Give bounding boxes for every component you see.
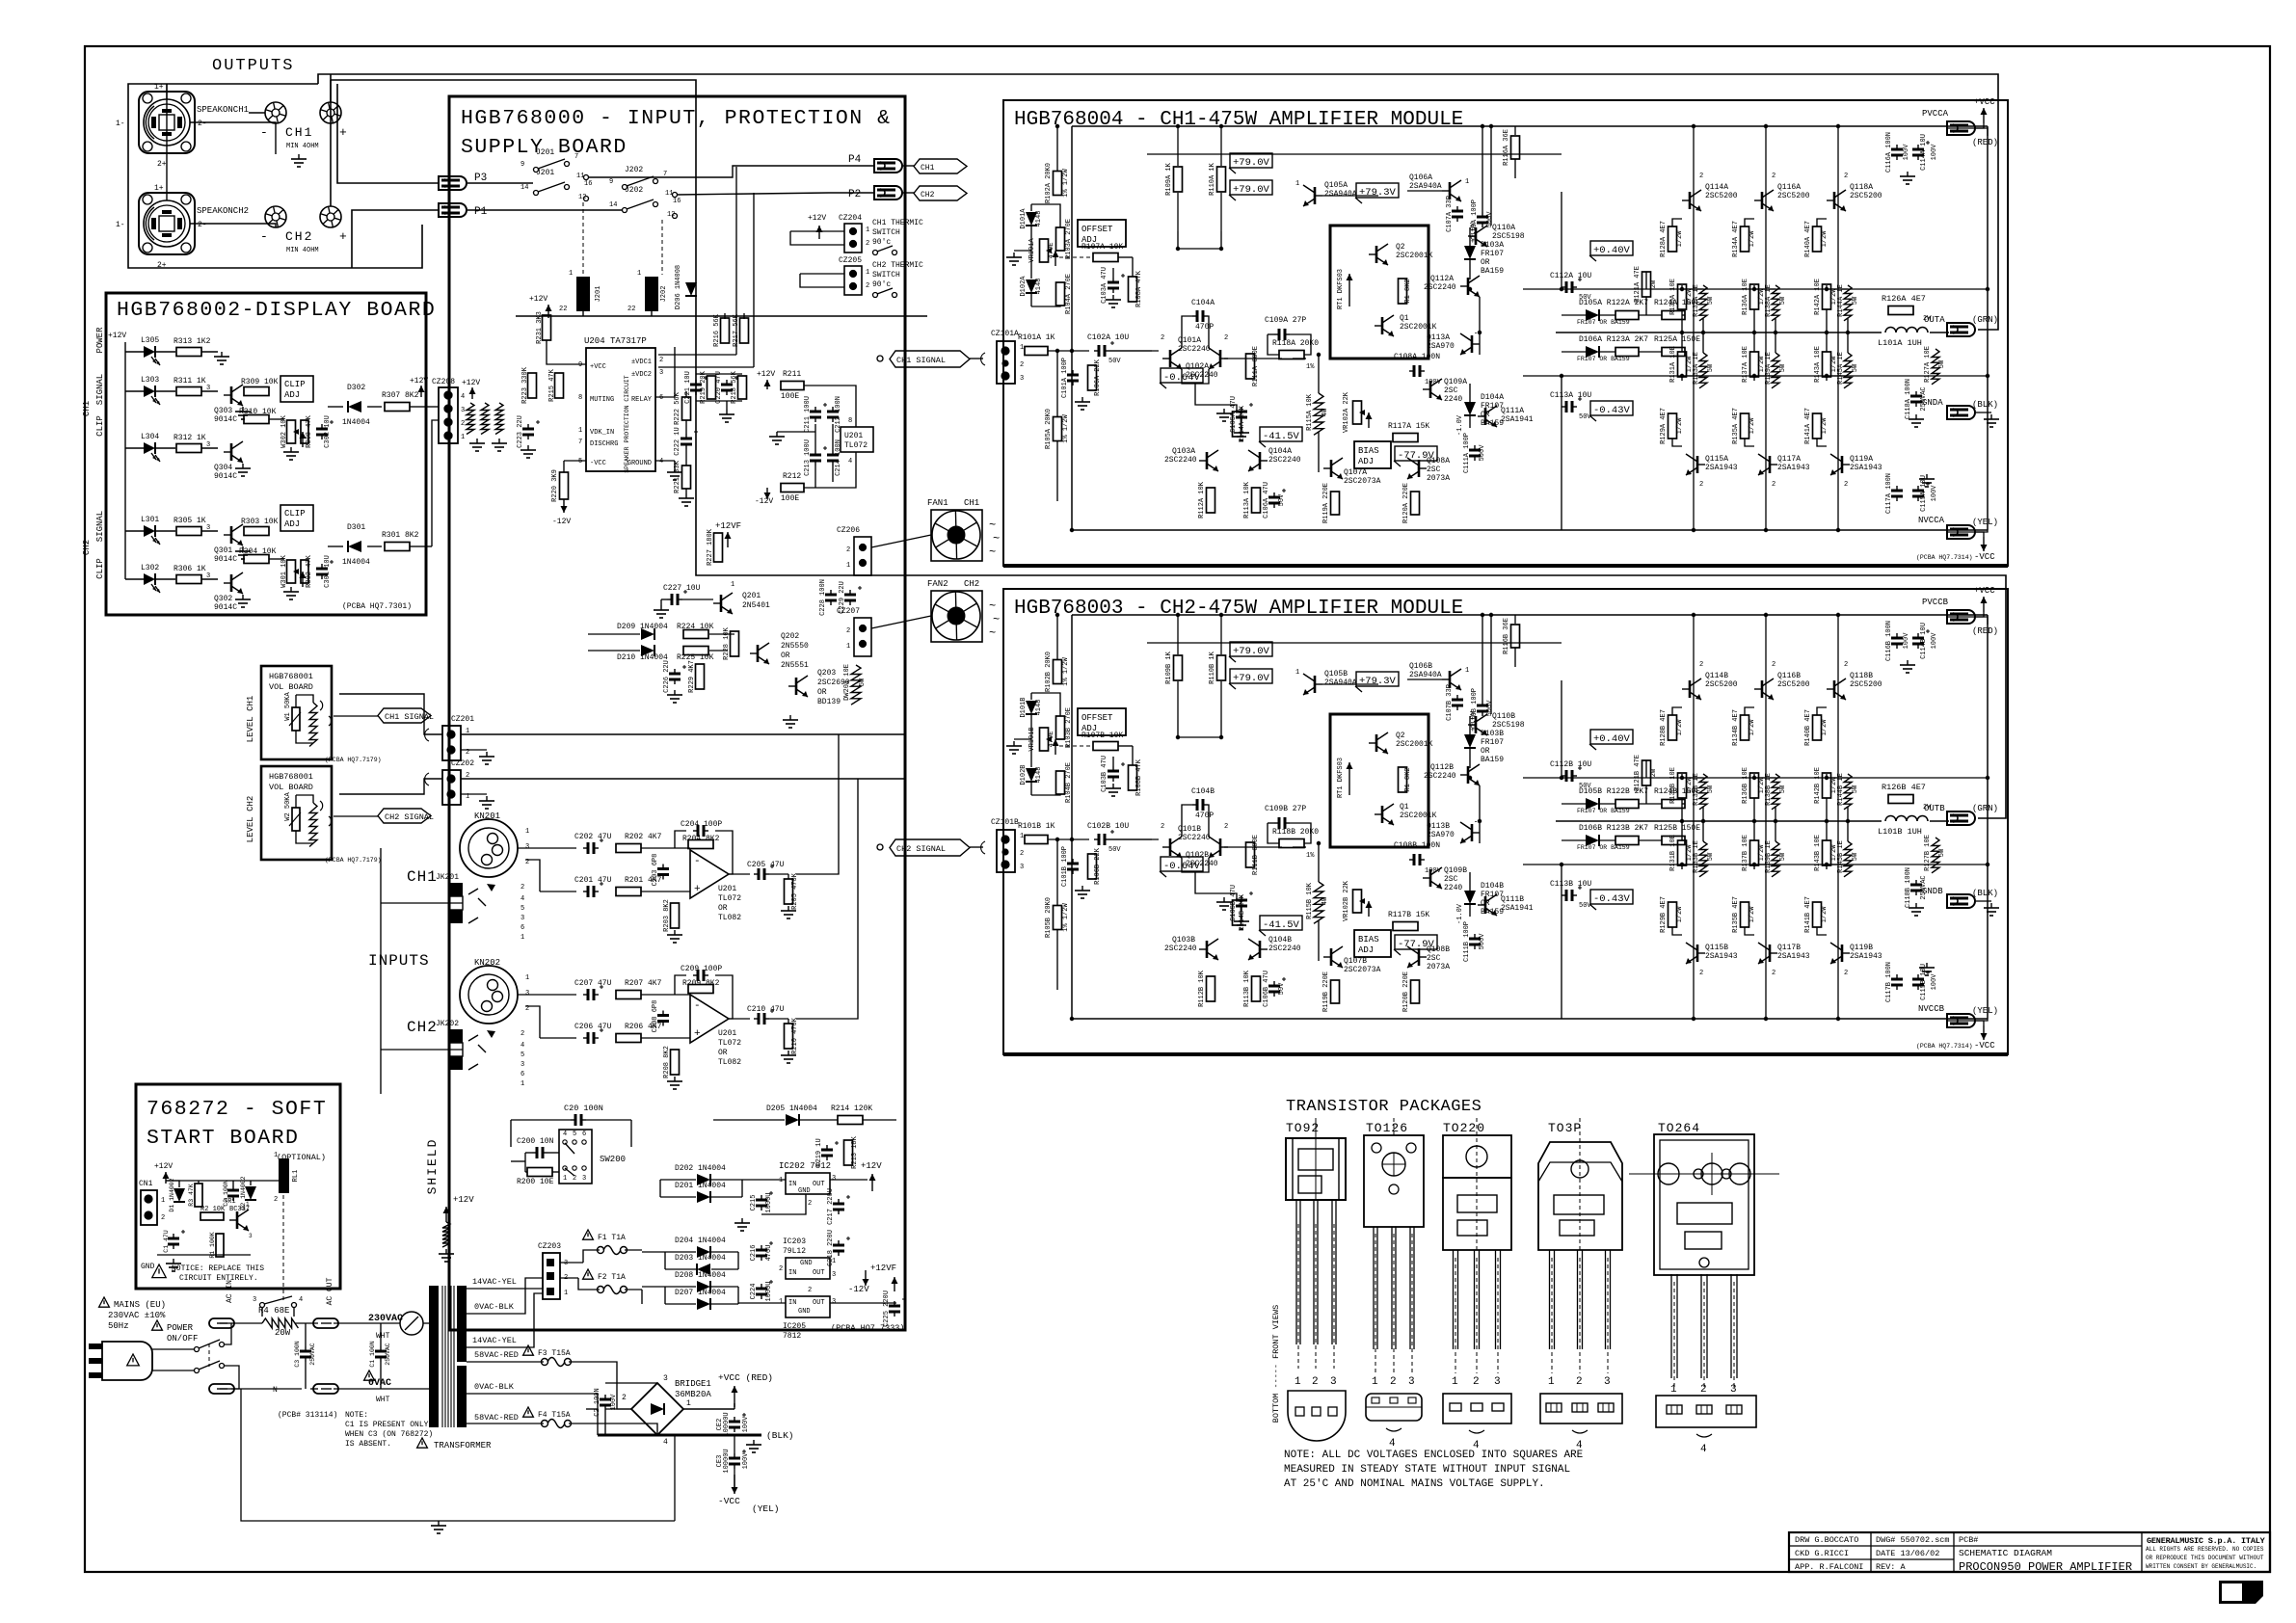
resistor R218 56K	[738, 376, 747, 399]
wire out bus	[1556, 820, 1882, 822]
svg-text:1: 1	[578, 427, 582, 435]
resistor R209 8K2 feedback	[688, 985, 713, 994]
svg-text:5W: 5W	[1852, 852, 1859, 861]
svg-text:C113B 10U: C113B 10U	[1550, 880, 1591, 889]
wire J202 to P2	[677, 193, 874, 195]
voltmeter circle	[400, 1312, 423, 1335]
svg-text:+12V: +12V	[462, 379, 480, 387]
svg-text:1000U: 1000U	[765, 1281, 773, 1301]
svg-text:J202: J202	[625, 186, 643, 195]
svg-text:5W: 5W	[1852, 785, 1859, 793]
svg-text:WHT: WHT	[376, 1396, 390, 1404]
wire input to diff pair	[1109, 838, 1159, 840]
svg-text:R207 4K7: R207 4K7	[625, 979, 662, 988]
svg-text:C101B 100P: C101B 100P	[1061, 846, 1069, 887]
resistor R120A 220E	[1411, 492, 1420, 515]
svg-text:CZ203: CZ203	[538, 1242, 561, 1251]
svg-text:VR102A 22K: VR102A 22K	[1343, 391, 1350, 433]
svg-text:5W: 5W	[1938, 848, 1946, 857]
svg-text:R128B 4E7: R128B 4E7	[1660, 709, 1668, 746]
svg-text:R301 8K2: R301 8K2	[382, 531, 419, 540]
resistor R303 10K	[244, 527, 269, 536]
svg-text:3: 3	[1330, 1376, 1337, 1388]
op-amp U201 C202	[690, 850, 729, 898]
svg-text:Q106B: Q106B	[1409, 662, 1432, 671]
switch power	[195, 1347, 200, 1352]
resistor R305 1K	[155, 530, 175, 532]
svg-text:1/2W: 1/2W	[1821, 417, 1829, 435]
svg-text:Q107A: Q107A	[1344, 468, 1367, 477]
svg-text:Q303: Q303	[214, 407, 232, 415]
svg-text:2: 2	[1224, 823, 1228, 831]
op-amp U201 C207	[690, 995, 729, 1043]
wire base drops	[1177, 615, 1179, 654]
svg-text:-12V: -12V	[552, 518, 571, 526]
svg-text:CH1 SIGNAL: CH1 SIGNAL	[896, 356, 946, 365]
svg-text:470P: 470P	[1195, 811, 1214, 820]
svg-text:D301: D301	[347, 523, 365, 532]
wire switch to AC IN	[220, 1323, 231, 1344]
svg-text:(BLK): (BLK)	[766, 1430, 794, 1441]
svg-text:4: 4	[1389, 1438, 1396, 1450]
potentiometer W301 10K	[287, 560, 296, 583]
svg-text:R304 10K: R304 10K	[239, 547, 277, 556]
svg-text:C209 100P: C209 100P	[681, 965, 722, 973]
diode D103B	[1464, 734, 1476, 748]
svg-text:R107B 10K: R107B 10K	[1081, 732, 1123, 740]
resistor R108A 47K	[1129, 277, 1137, 302]
potentiometer VR102B 22K	[1353, 890, 1362, 913]
ground C223	[527, 445, 529, 450]
wire U204 relay to coils	[655, 347, 675, 397]
svg-text:OR REPRODUCE THIS DOCUMENT WIT: OR REPRODUCE THIS DOCUMENT WITHOUT	[2146, 1555, 2264, 1561]
svg-text:R219 20K: R219 20K	[700, 370, 707, 403]
svg-text:APP. R.FALCONI: APP. R.FALCONI	[1795, 1562, 1863, 1572]
svg-text:C207 47U: C207 47U	[574, 979, 612, 988]
svg-text:Q109A: Q109A	[1444, 378, 1467, 386]
transistor Q111A 2SA1941	[1484, 408, 1487, 425]
svg-text:+12V: +12V	[108, 332, 126, 340]
svg-text:(PCBA HQ7.7314): (PCBA HQ7.7314)	[1916, 554, 1973, 561]
svg-text:3: 3	[1020, 864, 1024, 871]
svg-text:C225 220U: C225 220U	[883, 1290, 891, 1327]
resistor R306 1K	[155, 578, 175, 580]
svg-text:MUTING: MUTING	[590, 396, 614, 404]
svg-text:-12V: -12V	[755, 497, 773, 506]
svg-text:R218 56K: R218 56K	[731, 370, 738, 403]
svg-text:(RED): (RED)	[1972, 138, 1998, 147]
svg-text:D104A: D104A	[1481, 393, 1504, 402]
svg-text:HGB768001: HGB768001	[269, 672, 313, 681]
svg-text:-VCC: -VCC	[1974, 552, 1995, 562]
svg-text:R108B 47K: R108B 47K	[1135, 758, 1143, 796]
svg-text:2SC5200: 2SC5200	[1777, 680, 1810, 689]
capacitor C107A 33P	[1456, 206, 1458, 211]
svg-text:FR107 OR BA159: FR107 OR BA159	[1577, 808, 1630, 814]
svg-text:R134B 4E7: R134B 4E7	[1732, 709, 1740, 746]
wire speakon1 to minus post	[190, 122, 276, 123]
wire base bus upper	[1147, 642, 1562, 644]
wire Q110 collector	[1490, 126, 1492, 226]
svg-text:CZ101B: CZ101B	[991, 818, 1019, 827]
diode D102B 4148	[1026, 768, 1037, 782]
binding post CH2 plus	[320, 206, 341, 227]
svg-text:R133A 1E: R133A 1E	[1693, 352, 1700, 385]
ground U204	[674, 467, 676, 472]
svg-text:IC202 7812: IC202 7812	[779, 1161, 831, 1171]
svg-text:1000U: 1000U	[765, 1192, 773, 1212]
svg-text:Q116A: Q116A	[1777, 183, 1801, 192]
wire speakon2 1+ up	[166, 84, 168, 200]
resistor R116B 36E	[1511, 625, 1520, 648]
svg-text:P1: P1	[474, 206, 488, 218]
svg-text:R110B 1K: R110B 1K	[1209, 651, 1216, 683]
svg-text:BD139: BD139	[817, 698, 841, 706]
diode D1 1N4002	[174, 1188, 185, 1202]
svg-text:C302 10U: C302 10U	[324, 415, 332, 448]
svg-text:20W: 20W	[275, 1328, 291, 1338]
svg-text:CZ204: CZ204	[839, 214, 862, 223]
capacitor C226 22U	[674, 669, 676, 674]
binding post CH2 minus	[265, 206, 286, 227]
svg-text:2N5551: 2N5551	[781, 661, 809, 670]
svg-text:2: 2	[1224, 334, 1228, 342]
svg-text:C227 10U: C227 10U	[663, 584, 701, 593]
svg-text:2240: 2240	[1444, 884, 1462, 892]
svg-text:R142B 10E: R142B 10E	[1814, 767, 1822, 804]
wire R121 to bus	[1645, 272, 1647, 289]
corner mark	[2219, 1581, 2263, 1604]
svg-text:R131B 10E: R131B 10E	[1669, 835, 1677, 871]
svg-text:2: 2	[573, 1175, 576, 1183]
svg-text:-: -	[694, 856, 701, 867]
package TO220 front view	[1443, 1135, 1511, 1178]
resistor R112B 10K	[1207, 976, 1215, 1001]
resistor R142B 10E	[1823, 773, 1831, 798]
svg-text:C1 IS PRESENT ONLY: C1 IS PRESENT ONLY	[345, 1421, 429, 1429]
voltage -0.64V tag	[1161, 857, 1203, 871]
voltage +79.0V tags	[1230, 642, 1272, 656]
resistor R136B 10E	[1750, 773, 1759, 798]
svg-text:1/2W: 1/2W	[1749, 417, 1756, 435]
svg-text:~: ~	[989, 626, 996, 640]
capacitor C103B 47U	[1112, 766, 1114, 771]
resistor R127A 10E 5W	[1932, 349, 1939, 385]
wire output columns	[1693, 615, 1695, 1019]
ground clip W302	[290, 447, 292, 452]
svg-text:R125B 150E: R125B 150E	[1654, 824, 1700, 833]
svg-text:2: 2	[1844, 481, 1848, 489]
svg-text:250VAC: 250VAC	[385, 1343, 391, 1366]
svg-text:90'c: 90'c	[872, 280, 891, 289]
svg-text:NVCCA: NVCCA	[1918, 516, 1945, 525]
svg-text:1+: 1+	[154, 83, 164, 92]
svg-text:F4 T15A: F4 T15A	[538, 1411, 571, 1420]
svg-text:2SA940A: 2SA940A	[1324, 190, 1357, 199]
relay coil J202	[645, 277, 658, 311]
capacitor C229 22U	[849, 590, 851, 595]
svg-text:R4 68E: R4 68E	[258, 1306, 289, 1316]
svg-text:R313 1K2: R313 1K2	[174, 337, 211, 346]
svg-text:50V: 50V	[1579, 902, 1591, 910]
svg-text:50V: 50V	[1278, 982, 1286, 995]
svg-text:2: 2	[1312, 1376, 1319, 1388]
wire outputs to P3	[337, 84, 439, 183]
svg-text:R130B 10E: R130B 10E	[1669, 767, 1677, 804]
svg-text:3: 3	[1408, 1376, 1415, 1388]
svg-text:R311 1K: R311 1K	[174, 377, 206, 386]
wire caps C213	[814, 424, 816, 450]
svg-text:W2 50KA: W2 50KA	[284, 791, 292, 820]
svg-text:F1 T1A: F1 T1A	[598, 1234, 626, 1242]
transistor Q108B	[1418, 948, 1421, 966]
svg-text:AT 25'C AND NOMINAL MAINS VOLT: AT 25'C AND NOMINAL MAINS VOLTAGE SUPPLY…	[1284, 1478, 1545, 1490]
svg-text:2SC: 2SC	[1444, 875, 1458, 884]
svg-text:R312 1K: R312 1K	[174, 434, 206, 442]
svg-text:2: 2	[1772, 661, 1775, 669]
svg-text:MIN 4OHM: MIN 4OHM	[286, 247, 319, 254]
capacitor C2 100N	[232, 1185, 234, 1190]
resistor R222 56K	[682, 397, 691, 420]
svg-text:DRW G.BOCCATO: DRW G.BOCCATO	[1795, 1535, 1858, 1545]
wire signal tag to connector	[970, 846, 983, 848]
wire P3 to J201	[467, 182, 533, 184]
svg-text:4148: 4148	[1035, 211, 1043, 227]
resistor R130A 10E	[1678, 284, 1687, 309]
resistor R121B 47E	[1642, 760, 1651, 785]
thermal block RT1	[1330, 226, 1428, 359]
capacitor C118B 100N	[1915, 880, 1917, 885]
svg-text:R302 47K: R302 47K	[306, 554, 313, 587]
svg-text:4: 4	[848, 458, 852, 466]
ground Q302 emitter	[242, 595, 244, 599]
svg-text:R3 47K: R3 47K	[188, 1184, 195, 1207]
resistor R201 4K7	[616, 888, 641, 896]
capacitor C221 10U	[695, 380, 697, 385]
svg-text:F3 T15A: F3 T15A	[538, 1349, 571, 1358]
svg-text:+VCC: +VCC	[1974, 586, 1995, 596]
wire opamp2 out to bus	[796, 779, 858, 1019]
svg-text:1N4004: 1N4004	[342, 558, 370, 567]
svg-text:U201: U201	[718, 1029, 736, 1038]
svg-text:Q115A: Q115A	[1705, 455, 1728, 464]
svg-text:6: 6	[582, 1131, 586, 1138]
svg-text:L305: L305	[141, 336, 159, 345]
svg-text:2SC5200: 2SC5200	[1705, 680, 1738, 689]
svg-text:+0.40V: +0.40V	[1593, 245, 1631, 256]
svg-text:R105A 20K0: R105A 20K0	[1045, 409, 1053, 449]
transistor Q110B 2SC5198	[1475, 716, 1478, 733]
svg-text:768272 - SOFT: 768272 - SOFT	[147, 1098, 327, 1121]
svg-text:R113A 10K: R113A 10K	[1243, 481, 1251, 519]
svg-text:8: 8	[578, 394, 582, 402]
svg-text:C202 47U: C202 47U	[574, 833, 612, 841]
notice warning	[152, 1264, 166, 1278]
svg-text:(RED): (RED)	[1972, 626, 1998, 636]
svg-text:Q103A: Q103A	[1172, 447, 1195, 456]
svg-text:JK202: JK202	[436, 1020, 459, 1028]
package TO264 bottom view	[1656, 1396, 1756, 1427]
wire top rail	[1072, 125, 1988, 127]
svg-text:R118A 20K0: R118A 20K0	[1272, 339, 1319, 348]
svg-text:2SC: 2SC	[1427, 466, 1441, 474]
wire diff pair emitters	[1182, 369, 1209, 384]
svg-text:2SC2001K: 2SC2001K	[1400, 811, 1437, 820]
svg-text:+12V: +12V	[861, 1161, 882, 1171]
wire CE3	[734, 1435, 735, 1453]
ground R210	[788, 1051, 789, 1055]
transistor Q112A 2SC2240	[1467, 278, 1470, 295]
resistor R229 4K7	[696, 664, 705, 689]
svg-text:1/2W: 1/2W	[1749, 906, 1756, 923]
svg-text:2: 2	[1020, 850, 1024, 858]
capacitor C117B 100N	[1896, 974, 1898, 979]
package TO3P bottom view	[1540, 1394, 1622, 1423]
resistor R104B 270E	[1056, 771, 1065, 794]
ground right top	[1907, 660, 1909, 665]
svg-text:-: -	[694, 1000, 701, 1012]
svg-text:2: 2	[779, 1265, 783, 1273]
wire P1 to J202	[467, 209, 622, 211]
svg-text:+VCC: +VCC	[1974, 97, 1995, 107]
capacitor C210 47U output	[729, 1018, 750, 1020]
voltage +0.40V tag	[1590, 241, 1633, 255]
svg-text:D205 1N4004: D205 1N4004	[766, 1104, 817, 1113]
svg-text:R111B 680E: R111B 680E	[1252, 835, 1260, 875]
package TO220 pin4 brace	[1469, 1430, 1484, 1433]
svg-text:100E: 100E	[781, 392, 799, 401]
svg-text:Q304: Q304	[214, 464, 232, 472]
display board HGB768002 outline	[106, 293, 426, 615]
svg-text:L302: L302	[141, 564, 159, 572]
svg-text:100V: 100V	[1931, 485, 1938, 502]
svg-text:CH2 SIGNAL: CH2 SIGNAL	[385, 812, 434, 822]
wire PVCCB to rail	[1947, 617, 1988, 625]
svg-text:RT1 DKFS03: RT1 DKFS03	[1337, 269, 1345, 309]
svg-text:OR: OR	[781, 652, 790, 660]
svg-text:R104A 270E: R104A 270E	[1065, 274, 1073, 314]
svg-text:R102A 20K0: R102A 20K0	[1045, 163, 1053, 203]
wire R109 R110 to transistors	[1178, 720, 1221, 737]
capacitor C222 1U	[685, 434, 687, 439]
resistor R141A 4E7	[1813, 413, 1822, 439]
svg-text:3: 3	[521, 915, 524, 922]
svg-text:6: 6	[521, 1071, 524, 1078]
svg-text:Q114A: Q114A	[1705, 183, 1728, 192]
svg-text:C105A 47U: C105A 47U	[1230, 396, 1238, 433]
ground VR101	[1013, 253, 1015, 257]
offset adj box	[1078, 220, 1126, 247]
svg-text:R208 8K2: R208 8K2	[663, 1046, 671, 1078]
svg-text:3: 3	[582, 1175, 586, 1183]
svg-text:3: 3	[206, 385, 210, 392]
svg-text:+VCC (RED): +VCC (RED)	[718, 1372, 773, 1383]
bridge rectifier BRIDGE1 36MB20A	[631, 1383, 683, 1435]
wire mid cluster	[696, 373, 742, 375]
svg-text:3: 3	[659, 369, 663, 377]
svg-text:5W: 5W	[1707, 785, 1715, 793]
mains plug	[102, 1342, 152, 1380]
svg-text:BIAS: BIAS	[1358, 935, 1379, 945]
svg-text:+: +	[339, 229, 347, 244]
svg-text:R1 8K2: R1 8K2	[1404, 767, 1412, 791]
capacitor C101B 100P	[1072, 859, 1074, 864]
wire CZ201 bus right	[461, 733, 905, 735]
transistor Q201 2N5401	[714, 533, 723, 562]
svg-text:D302: D302	[347, 384, 365, 392]
svg-text:GROUND: GROUND	[627, 460, 652, 467]
svg-text:R103A 270E: R103A 270E	[1065, 219, 1073, 259]
svg-text:1: 1	[846, 643, 850, 651]
svg-text:R221 33K: R221 33K	[674, 460, 681, 492]
svg-text:C210 47U: C210 47U	[747, 1005, 785, 1014]
svg-text:(PCBA HQ7.7179): (PCBA HQ7.7179)	[325, 857, 382, 864]
diode D101A 4148	[1026, 212, 1037, 226]
resistor R105A 20K0	[1054, 417, 1062, 441]
svg-text:D202 1N4004: D202 1N4004	[675, 1164, 726, 1173]
svg-text:R303 10K: R303 10K	[241, 518, 279, 526]
svg-text:R220 3K9: R220 3K9	[551, 469, 559, 502]
svg-text:1: 1	[161, 1197, 165, 1205]
svg-text:2SC2240: 2SC2240	[1178, 345, 1211, 354]
svg-text:470E: 470E	[1048, 243, 1055, 259]
svg-text:1: 1	[1670, 1384, 1677, 1396]
svg-text:2: 2	[1699, 481, 1703, 489]
wire sw200	[525, 1152, 532, 1154]
resistor R304 10K	[244, 555, 269, 564]
svg-text:22: 22	[627, 306, 635, 313]
ground clip W301	[290, 587, 292, 592]
svg-text:CH1: CH1	[921, 164, 935, 173]
capacitor C105B 47U	[1241, 895, 1242, 900]
svg-text:2: 2	[846, 546, 850, 554]
svg-text:C106A 47U: C106A 47U	[1263, 482, 1270, 519]
svg-text:R121B 47E: R121B 47E	[1634, 755, 1642, 791]
package TO264 legs	[1670, 1274, 1672, 1378]
ground Q203	[789, 715, 791, 720]
svg-text:5W: 5W	[1707, 852, 1715, 861]
svg-text:1/2W: 1/2W	[1821, 906, 1829, 923]
svg-text:9014C: 9014C	[214, 415, 237, 424]
svg-text:1: 1	[1465, 178, 1469, 186]
resistor R207 4K7	[616, 991, 641, 999]
svg-text:D105B R122B 2K7: D105B R122B 2K7	[1579, 787, 1648, 796]
wire soft start rail	[166, 1180, 283, 1182]
svg-text:POWER: POWER	[167, 1323, 194, 1333]
svg-text:5W: 5W	[1938, 359, 1946, 368]
wire output CH1 top rail	[318, 74, 1998, 330]
svg-text:-12V: -12V	[848, 1285, 869, 1294]
diff pair Q101 Q102	[1169, 350, 1172, 367]
svg-text:3: 3	[521, 1061, 524, 1069]
svg-text:100V: 100V	[610, 1394, 618, 1411]
LED L302	[125, 578, 144, 580]
svg-text:2: 2	[1473, 1376, 1480, 1388]
svg-text:OR: OR	[718, 904, 728, 913]
svg-text:+0.40V: +0.40V	[1593, 733, 1631, 745]
wire P4 to CH1 tag	[903, 165, 914, 167]
svg-text:1: 1	[731, 581, 734, 589]
svg-text:+: +	[694, 884, 701, 895]
svg-text:OUTB: OUTB	[1924, 804, 1945, 813]
svg-text:BA159: BA159	[1481, 756, 1504, 764]
svg-text:GNDB: GNDB	[1922, 887, 1943, 896]
resistor R217 56K	[740, 318, 749, 343]
svg-text:DATE 13/06/02: DATE 13/06/02	[1876, 1549, 1939, 1558]
transistor Q202 2N5550	[757, 645, 760, 662]
svg-text:R308 47K: R308 47K	[306, 414, 313, 447]
svg-text:R204 8K2: R204 8K2	[682, 835, 720, 843]
